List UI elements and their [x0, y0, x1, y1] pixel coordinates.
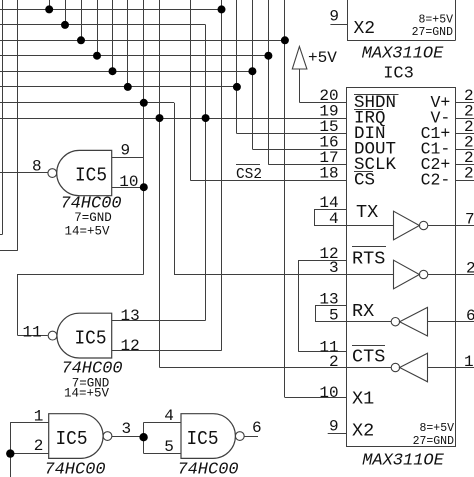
svg-text:5: 5 [329, 306, 339, 324]
svg-text:RX: RX [352, 301, 374, 322]
svg-text:IC5: IC5 [56, 428, 88, 450]
svg-text:9: 9 [121, 142, 131, 160]
svg-text:7: 7 [465, 210, 474, 228]
svg-text:MAX311OE: MAX311OE [362, 45, 444, 64]
svg-text:14=+5V: 14=+5V [64, 387, 110, 401]
svg-text:IC3: IC3 [383, 65, 414, 84]
svg-text:1: 1 [464, 353, 474, 371]
svg-text:6: 6 [252, 419, 262, 437]
svg-text:10: 10 [319, 384, 338, 402]
svg-text:6: 6 [466, 307, 474, 325]
svg-text:CS2: CS2 [236, 166, 262, 183]
svg-text:13: 13 [121, 307, 140, 325]
svg-text:IC5: IC5 [75, 165, 107, 187]
svg-text:1: 1 [34, 408, 44, 426]
svg-text:12: 12 [121, 337, 140, 355]
svg-text:11: 11 [23, 324, 42, 342]
svg-text:10: 10 [119, 173, 138, 191]
svg-text:X2: X2 [352, 421, 374, 442]
svg-text:8: 8 [32, 158, 42, 176]
svg-text:X2: X2 [354, 19, 376, 39]
svg-text:7=GND: 7=GND [74, 211, 112, 225]
svg-text:27=GND: 27=GND [412, 26, 454, 39]
svg-text:74HC00: 74HC00 [44, 461, 105, 477]
svg-text:2: 2 [34, 437, 44, 455]
svg-text:IC5: IC5 [75, 328, 107, 350]
svg-text:CS: CS [354, 171, 375, 191]
svg-text:CTS: CTS [352, 347, 385, 368]
svg-text:8=+5V: 8=+5V [419, 422, 454, 435]
svg-text:9: 9 [329, 8, 339, 26]
svg-text:74HC00: 74HC00 [177, 461, 238, 477]
svg-text:4: 4 [164, 407, 174, 425]
svg-text:5: 5 [164, 438, 174, 456]
svg-text:27=GND: 27=GND [413, 435, 455, 448]
svg-text:18: 18 [319, 165, 338, 183]
svg-text:9: 9 [329, 418, 339, 436]
svg-text:2: 2 [464, 165, 474, 183]
svg-text:+5V: +5V [308, 49, 337, 67]
svg-text:C2-: C2- [421, 171, 451, 190]
svg-text:X1: X1 [352, 389, 374, 410]
svg-text:MAX311OE: MAX311OE [362, 452, 444, 471]
svg-text:4: 4 [329, 210, 339, 228]
svg-text:RTS: RTS [352, 249, 385, 270]
svg-text:3: 3 [329, 259, 339, 277]
svg-text:2: 2 [329, 353, 339, 371]
svg-text:IC5: IC5 [187, 428, 219, 450]
svg-text:8=+5V: 8=+5V [418, 14, 453, 27]
svg-text:2: 2 [466, 260, 474, 278]
svg-text:3: 3 [122, 420, 132, 438]
svg-text:TX: TX [356, 202, 378, 223]
svg-text:14=+5V: 14=+5V [64, 225, 110, 239]
